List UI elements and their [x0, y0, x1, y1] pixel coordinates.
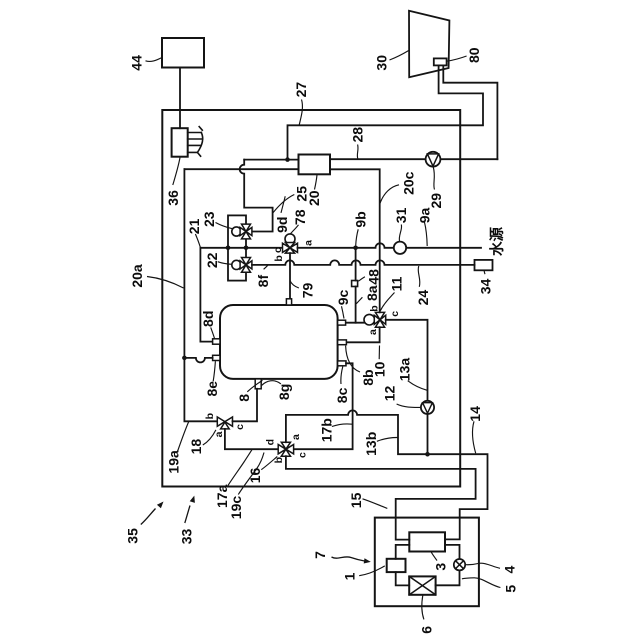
svg-text:15: 15 — [348, 492, 364, 508]
svg-text:78: 78 — [292, 209, 308, 225]
trapezoid display 30 — [409, 11, 449, 77]
svg-text:28: 28 — [349, 127, 365, 143]
shower icon arc — [197, 133, 202, 153]
shower icon tails — [198, 127, 203, 157]
svg-text:8c: 8c — [334, 387, 350, 403]
valve 22 cross — [240, 258, 252, 273]
svg-text:14: 14 — [467, 406, 483, 422]
svg-text:b: b — [369, 305, 381, 311]
svg-text:8e: 8e — [204, 381, 220, 397]
pipe valve18 c to tank bottom — [233, 389, 258, 422]
tank stub right 8c — [338, 361, 346, 366]
svg-text:24: 24 — [415, 290, 431, 306]
svg-text:8a: 8a — [364, 285, 380, 301]
svg-text:8d: 8d — [200, 311, 216, 327]
svg-text:8b: 8b — [360, 369, 376, 385]
valve 78 actuator circle — [285, 234, 295, 244]
svg-text:9b: 9b — [353, 211, 369, 227]
svg-text:27: 27 — [293, 82, 309, 98]
line 9c — [346, 322, 365, 324]
svg-text:b: b — [204, 413, 216, 419]
pipe 8c down — [294, 363, 353, 449]
svg-text:7: 7 — [312, 551, 328, 559]
valve 18 bottom triangle — [221, 422, 230, 429]
shower unit 36 — [172, 128, 188, 157]
line 9d (pipe21 top to valve78) — [200, 247, 282, 249]
svg-text:8g: 8g — [276, 384, 292, 400]
svg-text:6: 6 — [418, 626, 434, 634]
port letters — [204, 240, 401, 464]
svg-text:9a: 9a — [416, 208, 432, 224]
svg-text:c: c — [389, 311, 401, 317]
svg-text:c: c — [234, 424, 246, 430]
leader lines — [146, 51, 501, 620]
expansion valve 4 — [454, 559, 465, 570]
line 24 with hops — [252, 260, 475, 265]
refrigerant pipe HX3 left to box1 to compressor — [396, 545, 410, 586]
pipe 10 (valve11 a to tank 8b) — [346, 327, 379, 342]
svg-text:31: 31 — [393, 207, 409, 223]
svg-text:48: 48 — [365, 269, 381, 285]
svg-text:18: 18 — [188, 439, 204, 455]
pump 29 — [426, 152, 441, 167]
svg-text:a: a — [213, 431, 225, 437]
supply fitting 34 — [475, 260, 493, 270]
assembly arrows 35 33 7 — [141, 506, 365, 562]
heat exchanger 3 — [409, 532, 445, 551]
svg-text:3: 3 — [433, 563, 449, 571]
branch 9b with check valve 48 — [355, 248, 357, 323]
pipe 79 — [289, 253, 291, 299]
pipe 20c (box20 to valve 11) — [330, 169, 380, 312]
heat pump unit box 7 — [375, 518, 479, 607]
valve 23 cross — [240, 224, 252, 239]
svg-text:8f: 8f — [255, 275, 271, 288]
line y169 from elbow to box 20 lower port — [184, 168, 298, 170]
check valve 48 square — [352, 281, 358, 287]
valve manifold loop 22/23 — [228, 215, 246, 280]
svg-text:a: a — [290, 434, 302, 440]
tank stub right 8b — [338, 340, 347, 345]
svg-text:34: 34 — [478, 279, 494, 295]
svg-text:23: 23 — [201, 211, 217, 227]
svg-text:19a: 19a — [165, 450, 181, 474]
svg-text:13a: 13a — [397, 358, 413, 382]
svg-text:20: 20 — [306, 190, 322, 206]
svg-text:b: b — [273, 255, 285, 261]
wire 80 leg B (to line 28) — [443, 66, 497, 160]
svg-text:a: a — [367, 329, 379, 335]
line 28 — [330, 158, 497, 160]
valve 23 actuator circle — [232, 227, 241, 236]
pipe 25 (box20 to valve 23) with hop over y169 — [240, 160, 273, 232]
svg-text:44: 44 — [129, 55, 145, 71]
pipe 21 to tank port 8d — [200, 248, 212, 342]
svg-text:35: 35 — [124, 528, 140, 544]
svg-text:13b: 13b — [363, 432, 379, 456]
compressor 6 — [409, 576, 435, 594]
refrigerant pipe HX3 right to expansion valve 4 — [436, 545, 460, 585]
line 9a with hop over 20c pipe — [298, 243, 482, 247]
svg-text:a: a — [303, 240, 315, 246]
pump 12 — [421, 401, 434, 414]
svg-text:79: 79 — [300, 283, 316, 299]
left down pipe 20a/19a — [184, 169, 217, 421]
valve 16 cross — [278, 442, 293, 456]
line to box 20 upper port — [244, 159, 298, 161]
svg-text:17b: 17b — [319, 418, 335, 442]
device box 1 — [387, 559, 406, 572]
wire 44-36 — [179, 68, 181, 129]
svg-text:d: d — [265, 439, 277, 445]
svg-text:30: 30 — [374, 55, 390, 71]
pipe 13a with pump 12 — [386, 320, 428, 454]
svg-text:5: 5 — [502, 585, 518, 593]
box 44 — [162, 38, 204, 68]
labels (rotated) — [124, 47, 518, 633]
tank stub right 9c — [338, 320, 346, 325]
hot water tank 8 — [220, 305, 338, 379]
svg-text:29: 29 — [428, 193, 444, 209]
svg-text:80: 80 — [466, 47, 482, 63]
valve 78 cross — [283, 243, 298, 254]
svg-text:22: 22 — [204, 252, 220, 268]
svg-text:9d: 9d — [274, 217, 290, 233]
svg-text:11: 11 — [389, 276, 405, 291]
svg-text:21: 21 — [186, 218, 202, 234]
svg-text:8: 8 — [236, 394, 252, 402]
svg-text:4: 4 — [502, 565, 518, 573]
svg-text:1: 1 — [342, 572, 358, 580]
svg-text:16: 16 — [247, 468, 263, 484]
pipe 17a (valve18 a to valve16) — [225, 429, 278, 449]
valve 11 cross — [374, 312, 385, 327]
shower icon lines — [188, 133, 203, 153]
pipe 8e with hop over pipe 21 — [184, 358, 212, 363]
remote box 80 — [434, 58, 447, 65]
svg-text:20a: 20a — [129, 264, 145, 288]
svg-text:36: 36 — [165, 190, 181, 206]
tank stub top 79 — [286, 299, 291, 305]
wire 80 leg A (to line 27) — [288, 66, 484, 160]
svg-text:c: c — [272, 247, 284, 253]
svg-text:c: c — [297, 452, 309, 458]
valve 22 actuator circle — [232, 260, 241, 269]
pipe 15 (valve16 b to HX3) — [286, 456, 476, 539]
tank stub left 8d — [213, 339, 220, 344]
svg-text:19c: 19c — [228, 496, 244, 520]
svg-text:b: b — [273, 457, 285, 463]
svg-text:12: 12 — [382, 386, 398, 402]
junction dots — [182, 157, 430, 456]
valve 18 bowtie — [217, 417, 232, 426]
flow sensor 31 — [394, 242, 406, 254]
tank stub bottom 8g — [255, 379, 261, 389]
svg-text:水源: 水源 — [488, 227, 506, 256]
controller box 20 — [299, 155, 331, 175]
case border 33/35 — [162, 110, 460, 487]
pipe 13b/14 (valve16 d to HX3) with hop — [286, 410, 488, 539]
svg-text:9c: 9c — [335, 290, 351, 306]
tank stub left 8e — [213, 355, 220, 360]
valve 11 actuator circle — [364, 314, 375, 325]
svg-text:20c: 20c — [401, 171, 417, 195]
svg-text:33: 33 — [179, 529, 195, 545]
